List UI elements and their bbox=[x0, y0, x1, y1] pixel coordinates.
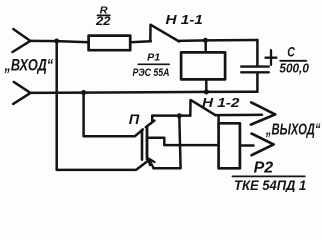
svg-text:РЭС 55А: РЭС 55А bbox=[133, 67, 170, 79]
node: junction dot on collector wire bbox=[177, 113, 182, 118]
fraction bar of R/22 bbox=[97, 14, 109, 16]
svg-text:Н 1-2: Н 1-2 bbox=[202, 95, 240, 110]
wire: stub from switch H1-2 right contact down to relay P2 bbox=[217, 115, 220, 123]
svg-text:Р2: Р2 bbox=[254, 159, 274, 176]
svg-text:22: 22 bbox=[95, 16, 111, 28]
wire: collector level wire to switch H1-2 corner bbox=[152, 114, 190, 117]
svg-text:„ВЫХОД“: „ВЫХОД“ bbox=[265, 122, 320, 139]
switch H1-1 left contact riser bbox=[149, 25, 152, 41]
node: junction dot bottom rail / relay P1 bottom lead bbox=[204, 89, 209, 94]
wire: relay P1 bottom lead bbox=[205, 79, 208, 92]
output arrow top bbox=[251, 102, 275, 124]
wire: resistor to switch H1-1 left contact bbox=[130, 41, 151, 42]
fraction bar of Р1/РЭС 55А bbox=[138, 63, 169, 65]
relay coil P2 bbox=[219, 123, 240, 168]
label Н 1-1 bbox=[166, 12, 203, 27]
label C bbox=[287, 44, 295, 59]
capacitor C plates bbox=[241, 67, 269, 73]
switch H1-1 blade bbox=[151, 25, 179, 42]
output arrow bottom bbox=[252, 134, 274, 156]
wire: emitter to common node vertical D bbox=[153, 116, 180, 169]
svg-text:„ВХОД“: „ВХОД“ bbox=[4, 56, 54, 74]
label Н 1-2 bbox=[202, 95, 240, 110]
svg-text:Р1: Р1 bbox=[147, 52, 160, 63]
wire: switch H1-1 to capacitor corner (top rail right) bbox=[179, 39, 258, 42]
wire top rail left: input to resistor R bbox=[30, 41, 89, 42]
transistor emitter lead with arrow bbox=[148, 159, 154, 169]
node: junction dot top wire / vertical feeder bbox=[54, 39, 59, 44]
wire bottom rail: input to capacitor bbox=[31, 92, 258, 93]
label П (transistor) bbox=[129, 112, 140, 128]
value label R/22 bbox=[95, 6, 111, 28]
label „ВХОД“ bbox=[4, 56, 54, 74]
wire: capacitor bottom lead bbox=[256, 73, 259, 92]
svg-text:ТКЕ 54ПД 1: ТКЕ 54ПД 1 bbox=[234, 178, 306, 192]
resistor R bbox=[89, 36, 131, 51]
node: junction dot bottom rail / base feeder bbox=[81, 90, 86, 95]
wire: base feeder from bottom rail down, right, ramp up to collector node wire bbox=[84, 93, 143, 137]
wire: transistor base step wire to relay P2 bbox=[147, 138, 219, 145]
transistor base bar 2 bbox=[146, 127, 149, 159]
transistor base bar 1 bbox=[141, 130, 144, 160]
relay coil P1 bbox=[181, 52, 225, 79]
wire: vertical feeder from top rail down and across to transistor emitter riser bbox=[57, 41, 148, 170]
label „ВЫХОД“ bbox=[265, 122, 320, 139]
node: junction dot top wire / relay P1 top lead bbox=[203, 38, 208, 43]
svg-text:Н 1-1: Н 1-1 bbox=[166, 12, 203, 27]
input connector arrow bottom („ВХОД“ pin 2) bbox=[13, 82, 30, 104]
svg-text:500,0: 500,0 bbox=[279, 61, 309, 75]
label ТКЕ 54ПД 1 bbox=[234, 178, 306, 194]
wire: relay P2 right lead to output arrow bottom bbox=[240, 144, 254, 147]
svg-text:П: П bbox=[129, 112, 140, 128]
label 500,0 bbox=[279, 61, 309, 75]
label Р1 bbox=[147, 52, 160, 63]
wire: relay P1 top lead bbox=[204, 40, 207, 52]
label РЭС 55А bbox=[133, 67, 170, 79]
input connector arrow top („ВХОД“ pin 1) bbox=[13, 29, 31, 52]
fraction bar of C/500,0 bbox=[280, 60, 306, 62]
wire: switch H1-2 to output arrow top bbox=[215, 114, 262, 117]
switch H1-2 left contact riser bbox=[189, 100, 192, 116]
switch H1-2 blade bbox=[191, 100, 216, 115]
label Р2 bbox=[254, 159, 274, 176]
transistor collector lead diagonal and riser bbox=[146, 116, 155, 128]
svg-text:С: С bbox=[287, 44, 295, 59]
polarity + sign of capacitor C bbox=[266, 50, 277, 65]
wire: capacitor top lead bbox=[256, 40, 259, 65]
fraction bar of Р2/ТКЕ 54ПД 1 bbox=[233, 175, 305, 177]
